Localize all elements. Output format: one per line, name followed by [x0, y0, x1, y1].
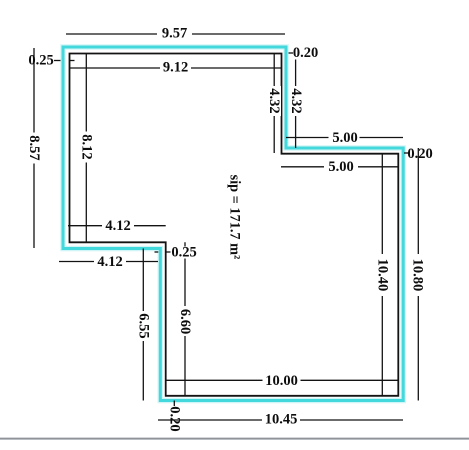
svg-text:8.57: 8.57 — [26, 135, 42, 160]
svg-text:sip = 171.7 m²: sip = 171.7 m² — [227, 175, 243, 260]
dim line 10.45 — [158, 419, 403, 421]
dim line 5.00 interior — [281, 166, 398, 168]
svg-text:0.20: 0.20 — [166, 406, 182, 431]
label backgrounds — [28, 27, 425, 426]
svg-text:0.20: 0.20 — [293, 45, 318, 61]
svg-text:9.12: 9.12 — [163, 60, 188, 76]
dim line 10.40 — [381, 154, 383, 396]
dim line 4.32 exterior — [295, 47, 297, 148]
svg-text:6.55: 6.55 — [135, 313, 151, 338]
dim line 4.32 interior — [273, 54, 275, 154]
svg-text:4.32: 4.32 — [266, 88, 282, 113]
outer wall outline (cyan) — [63, 47, 403, 401]
svg-text:0.25: 0.25 — [171, 245, 196, 261]
dim dash 0.20 right — [404, 152, 409, 154]
dim dashes 0.25 middle — [155, 251, 159, 253]
svg-text:5.00: 5.00 — [332, 130, 357, 146]
dim line 6.55 — [142, 249, 144, 401]
svg-text:10.40: 10.40 — [374, 259, 390, 292]
svg-text:0.20: 0.20 — [407, 146, 432, 162]
dim line 9.57 top — [66, 33, 285, 35]
inner wall outline (black) — [70, 54, 399, 396]
svg-text:10.80: 10.80 — [409, 259, 425, 292]
bottom separator line — [0, 438, 469, 440]
dim line 4.12 interior — [68, 225, 166, 227]
svg-text:4.32: 4.32 — [288, 88, 304, 113]
dim line 4.12 exterior — [59, 261, 158, 263]
dim line 8.57 left — [33, 48, 35, 248]
dim dash 0.20 top-right — [289, 52, 294, 54]
svg-text:4.12: 4.12 — [97, 254, 122, 270]
dim dashes 0.25 top-left — [54, 60, 61, 62]
dim line 5.00 exterior — [286, 137, 403, 139]
svg-text:0.25: 0.25 — [28, 53, 53, 69]
dim stub 0.20 bottom — [173, 401, 175, 407]
dim line 10.00 — [166, 379, 399, 381]
svg-text:4.12: 4.12 — [105, 218, 130, 234]
dim line 10.80 — [417, 148, 419, 401]
svg-text:8.12: 8.12 — [78, 134, 94, 159]
svg-text:6.60: 6.60 — [177, 309, 193, 334]
svg-text:5.00: 5.00 — [328, 159, 353, 175]
svg-text:9.57: 9.57 — [162, 26, 187, 42]
svg-text:10.00: 10.00 — [265, 373, 298, 389]
outer wall outline (cyan) halo — [63, 47, 403, 401]
dim line 8.12 — [85, 54, 87, 243]
svg-text:10.45: 10.45 — [265, 412, 298, 428]
dim line 9.12 — [70, 67, 281, 69]
dim line 6.60 — [184, 242, 186, 395]
